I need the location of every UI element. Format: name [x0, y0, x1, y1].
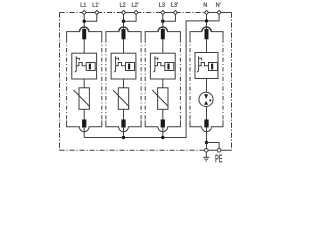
wire L2-L2' link	[124, 12, 137, 14]
terminal PE' (circle)	[217, 149, 221, 153]
spark gap F2 symbol	[114, 56, 135, 72]
spark gap F1 symbol	[75, 56, 96, 72]
wire L2 down to disconnector	[123, 13, 125, 31]
wire common varistor bus	[84, 21, 206, 138]
junction node PE	[205, 141, 208, 144]
varistor R2	[113, 88, 129, 110]
device enclosure border (right side)	[231, 13, 233, 151]
N-PE spark gap (circle)	[199, 92, 213, 106]
terminal label N'	[216, 3, 220, 7]
spark gap FN symbol	[197, 56, 218, 72]
N-PE gap gas dot	[209, 99, 211, 101]
wire L3-L3' link	[163, 12, 176, 14]
disconnector (bottom) module 3	[161, 120, 165, 128]
terminal N' (diamond)	[217, 10, 221, 14]
disconnector (bottom) module N	[204, 120, 208, 128]
label PE	[216, 155, 223, 163]
wire module 2 to common bus	[123, 127, 125, 138]
wire spark gap to varistor module 2	[123, 79, 125, 88]
wire spark gap to varistor module 3	[162, 79, 164, 88]
junction node L3	[161, 20, 164, 23]
wire module 1 to common bus	[83, 127, 85, 138]
terminal label L2'	[132, 3, 138, 7]
wire module 3 to common bus	[162, 127, 164, 138]
N-PE gap electrode (up arrow)	[204, 101, 208, 105]
varistor R3	[152, 88, 168, 110]
junction node L1	[83, 20, 86, 23]
terminal L2 (diamond)	[121, 10, 125, 14]
terminal label L1	[81, 3, 86, 7]
spark gap FN box	[195, 53, 218, 79]
device enclosure border (dash-dot, top side)	[60, 12, 207, 14]
module N box (dash-dot sides)	[190, 27, 223, 132]
wire L3 down to disconnector	[162, 13, 164, 31]
wire N down to disconnector	[206, 13, 208, 31]
terminal label N	[204, 3, 207, 7]
thermal disconnector (top) module 3	[158, 27, 167, 39]
wire N-N' link	[207, 12, 220, 14]
varistor R1	[74, 88, 90, 110]
spark gap F3 symbol	[153, 56, 174, 72]
terminal L2' (diamond)	[134, 10, 138, 14]
thermal disconnector (top) module N	[202, 27, 211, 39]
disconnector (bottom) module 1	[82, 120, 86, 128]
terminal label L1'	[93, 3, 99, 7]
ground (earth) symbol	[203, 157, 209, 161]
wire L3' drop to junction	[163, 13, 176, 22]
terminal L1' (diamond)	[95, 10, 99, 14]
wire PE terminal to earth	[205, 152, 207, 157]
wire L2' drop to junction	[124, 13, 137, 22]
N-PE gap electrode (down arrow)	[204, 94, 208, 99]
junction node bus-L2	[122, 136, 125, 139]
wire disconnector to spark gap module N	[206, 39, 208, 53]
wire PE node to PE' terminal	[207, 143, 220, 149]
wire N' to right border corner	[219, 12, 231, 14]
terminal L3' (diamond)	[173, 10, 177, 14]
wire disconnector to spark gap module 3	[162, 39, 164, 53]
wire varistor to bottom disconnector module 1	[83, 109, 85, 119]
module 1 box (dash-dot sides)	[67, 27, 102, 132]
wire PE terminals link	[207, 149, 232, 151]
module 3 box (dash-dot sides)	[145, 27, 180, 132]
disconnector (bottom) module 2	[121, 120, 125, 128]
wire module N to PE node	[206, 127, 208, 149]
wire L1 down to disconnector	[83, 13, 85, 31]
wire disconnector to spark gap module 2	[123, 39, 125, 53]
wire N' drop to junction	[207, 13, 220, 21]
terminal PE (circle)	[205, 149, 209, 153]
wire varistor to bottom disconnector module 2	[123, 109, 125, 119]
terminal N (diamond)	[204, 10, 208, 14]
terminal label L2	[120, 3, 125, 7]
wire L1-L1' link	[84, 12, 97, 14]
device enclosure border (bottom side)	[60, 149, 207, 151]
terminal label L3'	[171, 3, 177, 7]
terminal L3 (diamond)	[161, 10, 165, 14]
device enclosure border (left side)	[59, 13, 61, 151]
thermal disconnector (top) module 2	[119, 27, 128, 39]
spark gap F2 box	[111, 53, 136, 79]
module 2 box (dash-dot sides)	[106, 27, 141, 132]
wire N-PE gap to bottom disconnector	[206, 106, 208, 119]
junction node bus-L3	[161, 136, 164, 139]
wire L1' drop to junction	[84, 13, 97, 22]
junction node N	[205, 19, 208, 22]
wire spark gap to N-PE gap	[206, 79, 208, 93]
thermal disconnector (top) module 1	[80, 27, 89, 39]
junction node L2	[122, 20, 125, 23]
spark gap F3 box	[150, 53, 175, 79]
spark gap F1 box	[72, 53, 97, 79]
terminal L1 (diamond)	[82, 10, 86, 14]
wire disconnector to spark gap module 1	[83, 39, 85, 53]
wire varistor to bottom disconnector module 3	[162, 109, 164, 119]
wire spark gap to varistor module 1	[83, 79, 85, 88]
terminal label L3	[159, 3, 164, 7]
